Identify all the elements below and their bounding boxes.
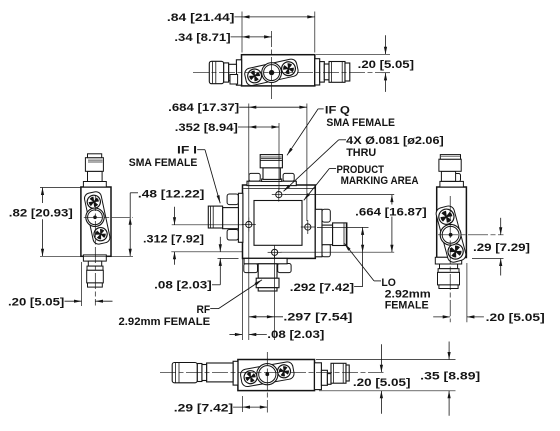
bottom view right screw bbox=[275, 362, 293, 380]
arrow .20 bv down to centerline bbox=[380, 344, 382, 372]
dim line .34 bbox=[231, 36, 272, 38]
svg-text:.352 [8.94]: .352 [8.94] bbox=[175, 122, 238, 134]
RF left flange screw bbox=[244, 264, 258, 273]
IF Q barrel bbox=[263, 168, 280, 180]
left view top cap bbox=[88, 154, 102, 158]
left view bottom neck bbox=[88, 261, 101, 266]
extension line right view body right edge bbox=[466, 263, 468, 322]
arrow .82 top bbox=[42, 188, 44, 204]
IF I neck bbox=[223, 208, 239, 229]
bottom view left 2.92mm barrel bbox=[207, 363, 234, 382]
arrow .20 br pointing left bbox=[467, 316, 484, 318]
right view screw slot outline bbox=[435, 205, 467, 264]
arrow .08 left top bbox=[219, 237, 221, 252]
IF Q left flange screw bbox=[249, 173, 260, 181]
top view left SMA nut bbox=[209, 61, 223, 83]
arrow .48 bottom bbox=[129, 249, 132, 256]
LO hole centerline extension right bbox=[317, 226, 369, 228]
extension line below bottom hole (x=274.4) bbox=[273, 256, 275, 341]
dim .297 bbox=[249, 316, 283, 318]
svg-text:.297 [7.54]: .297 [7.54] bbox=[283, 312, 352, 324]
left view bottom ring bbox=[87, 266, 103, 270]
svg-text:.684 [17.37]: .684 [17.37] bbox=[168, 102, 239, 114]
leader 4X hole callout bbox=[339, 139, 346, 141]
RF flange plate bbox=[244, 258, 287, 263]
LO top flange screw bbox=[322, 209, 330, 222]
svg-text:THRU: THRU bbox=[346, 147, 376, 159]
right view top screw bbox=[437, 207, 456, 226]
dim line .352 bbox=[238, 126, 279, 128]
left view bottom barrel bbox=[87, 270, 104, 283]
dim line .684 bbox=[239, 106, 307, 108]
arrow up to centerline bbox=[385, 73, 387, 92]
RF nut bbox=[256, 278, 279, 288]
top hole centerline extension right bbox=[285, 194, 394, 196]
bottom view right SMA end ring bbox=[346, 365, 349, 381]
arrow .08 left bottom bbox=[219, 258, 222, 266]
arrow .29 top bbox=[500, 218, 502, 235]
leader product marking area bbox=[329, 168, 336, 170]
arrow .48 top at circle centerline bbox=[129, 217, 132, 225]
top view right 2.92mm barrel bbox=[329, 62, 345, 83]
right view body bbox=[437, 187, 467, 258]
extension line right view body bottom bbox=[472, 258, 504, 260]
top view left SMA lower tab bbox=[230, 75, 238, 85]
bottom mounting hole 0.081in bbox=[268, 251, 282, 253]
svg-text:.20 [5.05]: .20 [5.05] bbox=[358, 59, 415, 71]
bottom view body bbox=[238, 360, 315, 391]
bottom view right SMA neck bbox=[321, 370, 327, 385]
left view bottom end ring bbox=[88, 283, 103, 287]
bottom view left 2.92mm flange bbox=[233, 361, 238, 385]
right view circle horizontal centerline ext bbox=[438, 234, 504, 236]
top view screw slot outline bbox=[244, 58, 300, 87]
left view top screw bbox=[86, 194, 102, 210]
bottom view left screw bbox=[242, 369, 259, 386]
top view body bbox=[242, 55, 315, 86]
svg-text:RF: RF bbox=[197, 304, 211, 316]
dim .664 bbox=[391, 195, 393, 205]
body top inner edge line bbox=[243, 187, 314, 189]
dim line .29 bv bbox=[233, 406, 267, 408]
extension line body left edge below bbox=[241, 258, 243, 340]
arrow .20 br pointing right bbox=[433, 316, 450, 318]
LO flange plate bbox=[315, 209, 322, 256]
right view top barrel bbox=[441, 171, 455, 181]
top view right screw bbox=[279, 59, 298, 78]
leader IF I bbox=[197, 149, 205, 151]
top view right 2.92mm ring bbox=[324, 64, 329, 80]
left mounting hole 0.081in bbox=[242, 224, 256, 226]
left view center circle (IF I end-on) bbox=[86, 208, 104, 226]
right view bottom flange plate bbox=[435, 257, 461, 264]
bottom view center circle (RF end-on) bbox=[257, 364, 278, 385]
IF I flange plate bbox=[238, 193, 243, 242]
svg-text:.312 [7.92]: .312 [7.92] bbox=[143, 233, 204, 245]
left view top nut bbox=[85, 158, 103, 172]
bottom hole centerline extension left bbox=[171, 251, 242, 253]
extension body top edge bottom view bbox=[316, 359, 456, 361]
svg-text:MARKING AREA: MARKING AREA bbox=[341, 175, 419, 187]
svg-text:.34 [8.71]: .34 [8.71] bbox=[174, 32, 231, 44]
extension line bottom view bbox=[242, 396, 244, 412]
top view right 2.92mm flange bbox=[315, 59, 320, 85]
left view top barrel bbox=[88, 171, 103, 181]
right view bottom neck bbox=[440, 264, 458, 269]
bottom view screw slot outline bbox=[240, 361, 295, 387]
svg-text:IF Q: IF Q bbox=[325, 105, 351, 117]
svg-text:.29 [7.29]: .29 [7.29] bbox=[473, 242, 530, 254]
arrow down to body top line bbox=[385, 35, 387, 54]
top mounting hole 0.081in bbox=[272, 194, 286, 196]
top view center circle (IF Q end-on) bbox=[262, 63, 282, 83]
left view vertical centerline bbox=[94, 195, 96, 306]
bottom view left ring2 bbox=[202, 365, 207, 381]
central view square body bbox=[243, 185, 316, 258]
svg-text:.08 [2.03]: .08 [2.03] bbox=[154, 280, 212, 292]
bottom view right SMA flange bbox=[315, 363, 322, 390]
top view right 2.92mm neck bbox=[320, 62, 325, 83]
svg-text:.20 [5.05]: .20 [5.05] bbox=[353, 377, 411, 389]
extension line to top hole (x=279) bbox=[278, 123, 280, 190]
LO barrel bbox=[333, 223, 347, 246]
svg-text:.84 [21.44]: .84 [21.44] bbox=[167, 12, 235, 24]
top view left SMA barrel bbox=[229, 64, 237, 80]
arrow .35 down bbox=[448, 342, 450, 360]
extension line body right edge bbox=[314, 12, 316, 53]
LO bottom flange screw bbox=[322, 244, 330, 257]
LO neck bbox=[322, 225, 333, 245]
IF Q flange plate bbox=[247, 181, 296, 185]
extension line through left hole (x=248.8) bbox=[248, 104, 250, 341]
left view circle horizontal centerline bbox=[84, 216, 133, 218]
right view bottom ring bbox=[438, 269, 459, 273]
extension line body top edge right bbox=[316, 53, 390, 55]
bottom view right SMA ring bbox=[327, 374, 331, 385]
IF Q barrel base bbox=[262, 179, 282, 181]
bottom view right SMA nut bbox=[331, 363, 346, 383]
extension line body left edge bbox=[241, 12, 243, 53]
svg-text:.48 [12.22]: .48 [12.22] bbox=[138, 188, 205, 200]
svg-text:.35 [8.89]: .35 [8.89] bbox=[420, 371, 480, 383]
product marking area inner square bbox=[254, 201, 302, 246]
svg-text:4X Ø.081 [ø2.06]: 4X Ø.081 [ø2.06] bbox=[346, 135, 444, 147]
bottom view left ring1 bbox=[197, 364, 202, 382]
IF Q nut bbox=[260, 155, 282, 168]
left view bottom flange plate bbox=[83, 255, 106, 261]
RF right flange screw bbox=[278, 264, 291, 273]
top view left SMA collar bbox=[224, 63, 229, 82]
arrow .20 right pointing left bbox=[96, 300, 113, 302]
right view top nut bbox=[439, 159, 461, 171]
top view vertical centerline through screw circle bbox=[271, 31, 273, 100]
arrow .312 bottom bbox=[174, 252, 176, 265]
svg-text:IF I: IF I bbox=[177, 145, 197, 157]
right view bottom screw bbox=[446, 241, 466, 261]
arrow .35 up bbox=[448, 391, 450, 416]
body bottom edge extension left bbox=[218, 257, 239, 259]
IF I top flange screw bbox=[227, 194, 238, 205]
IF Q right flange screw bbox=[283, 173, 294, 181]
svg-text:.20 [5.05]: .20 [5.05] bbox=[8, 296, 65, 308]
top view right 2.92mm end ring bbox=[345, 63, 350, 81]
svg-text:.08 [2.03]: .08 [2.03] bbox=[267, 329, 324, 341]
right view bottom barrel bbox=[438, 272, 460, 285]
extension line left view body left edge bbox=[81, 262, 83, 306]
svg-text:2.92mm FEMALE: 2.92mm FEMALE bbox=[119, 316, 211, 328]
right view top cap bbox=[440, 155, 460, 160]
arrow .20 left pointing right bbox=[65, 300, 82, 302]
dim line .84 bbox=[234, 16, 314, 18]
IF I barrel bbox=[208, 206, 222, 228]
arrow .29 bottom bbox=[500, 259, 502, 276]
IF I hole centerline extension left bbox=[172, 224, 243, 226]
extension line to right hole (x=306.9) bbox=[306, 104, 308, 222]
svg-text:FEMALE: FEMALE bbox=[385, 300, 429, 312]
right view bottom end ring bbox=[439, 285, 458, 289]
right mounting hole 0.081in bbox=[301, 226, 315, 228]
IF I bottom flange screw bbox=[227, 230, 238, 241]
arrow .20 bv up to bottom bbox=[380, 391, 382, 414]
svg-text:LO: LO bbox=[381, 277, 396, 289]
extension line left view bottom bbox=[40, 255, 133, 257]
right view top flange plate bbox=[440, 181, 464, 187]
svg-text:.664 [16.87]: .664 [16.87] bbox=[355, 206, 427, 218]
svg-text:.20 [5.05]: .20 [5.05] bbox=[486, 312, 545, 324]
svg-text:2.92mm: 2.92mm bbox=[385, 288, 431, 300]
arrow .82 bottom bbox=[42, 219, 44, 256]
leader LO bbox=[374, 280, 381, 282]
extension line left view top bbox=[40, 187, 81, 189]
right view top screw block bbox=[449, 174, 461, 182]
svg-text:PRODUCT: PRODUCT bbox=[337, 164, 385, 176]
svg-text:.292 [7.42]: .292 [7.42] bbox=[290, 282, 355, 294]
leader IF Q bbox=[318, 108, 324, 110]
left view body bbox=[81, 187, 111, 256]
top view left SMA flange bbox=[236, 60, 241, 85]
RF end ring bbox=[258, 288, 277, 291]
bottom view horizontal centerline bbox=[160, 371, 384, 373]
top view left screw bbox=[246, 67, 264, 85]
arrow .312 top bbox=[174, 207, 176, 225]
svg-text:.82 [20.93]: .82 [20.93] bbox=[9, 207, 73, 219]
svg-text:SMA FEMALE: SMA FEMALE bbox=[129, 157, 198, 169]
top view horizontal centerline bbox=[193, 72, 390, 74]
bottom hole centerline extension right bbox=[281, 251, 395, 253]
svg-text:SMA FEMALE: SMA FEMALE bbox=[326, 117, 395, 129]
bottom view vertical centerline bbox=[266, 352, 268, 413]
left view top flange plate bbox=[83, 182, 106, 188]
bottom view left 2.92mm nut bbox=[172, 363, 197, 383]
left view bottom screw bbox=[92, 225, 110, 243]
svg-text:.29 [7.42]: .29 [7.42] bbox=[174, 403, 234, 415]
extension body bottom edge bottom view bbox=[319, 390, 456, 392]
RF barrel bbox=[258, 264, 277, 278]
leader .48 bbox=[130, 192, 138, 194]
right view center circle (LO end-on) bbox=[440, 224, 461, 245]
leader RF bbox=[210, 308, 218, 310]
left view screw slot outline bbox=[83, 191, 110, 245]
dim .292 bbox=[362, 227, 364, 286]
right view vertical centerline bbox=[449, 196, 451, 322]
